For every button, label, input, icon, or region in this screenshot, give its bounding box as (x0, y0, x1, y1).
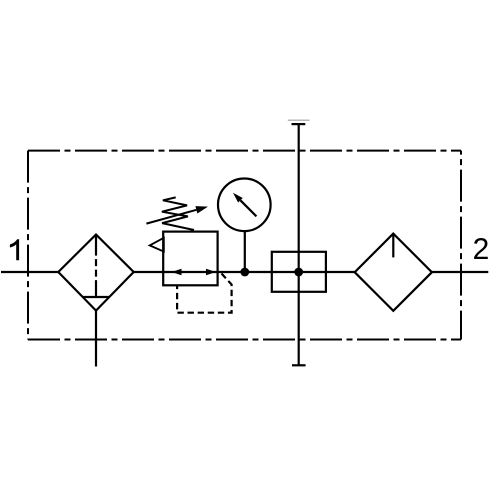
pilot control line (dashed) (177, 274, 232, 313)
regulator flow arrowheads (172, 269, 217, 275)
regulator vent triangle (150, 238, 164, 252)
plugged port top (T-bar) (292, 123, 306, 125)
node: gauge junction (240, 268, 249, 277)
pressure gauge G1 (218, 179, 271, 232)
filter with water separator F1 (58, 235, 133, 311)
wire: outlet line from lubricator to port 2 (432, 271, 488, 273)
wire: filter drain line (95, 311, 97, 367)
enclosure frame (service unit boundary, dash-dot) (28, 151, 461, 340)
regulator adjustment arrow (146, 206, 208, 224)
wire: main line from filter through regulator and branch to lubricator (134, 271, 355, 273)
wire: gauge stem (244, 231, 246, 272)
lubricator L1 (355, 234, 432, 311)
node: branch junction (294, 268, 303, 277)
regulator adjustment spring (162, 197, 194, 230)
port label 2 (474, 238, 488, 259)
wire: inlet line from port 1 to filter (1, 271, 58, 273)
pressure regulator body R1 (163, 232, 217, 286)
grey mark above top plug (288, 119, 310, 121)
plugged port bottom (T-bar) (292, 364, 306, 366)
port label 1 (10, 239, 19, 260)
wire: branch vertical line (298, 124, 300, 365)
branch module body (272, 252, 326, 292)
